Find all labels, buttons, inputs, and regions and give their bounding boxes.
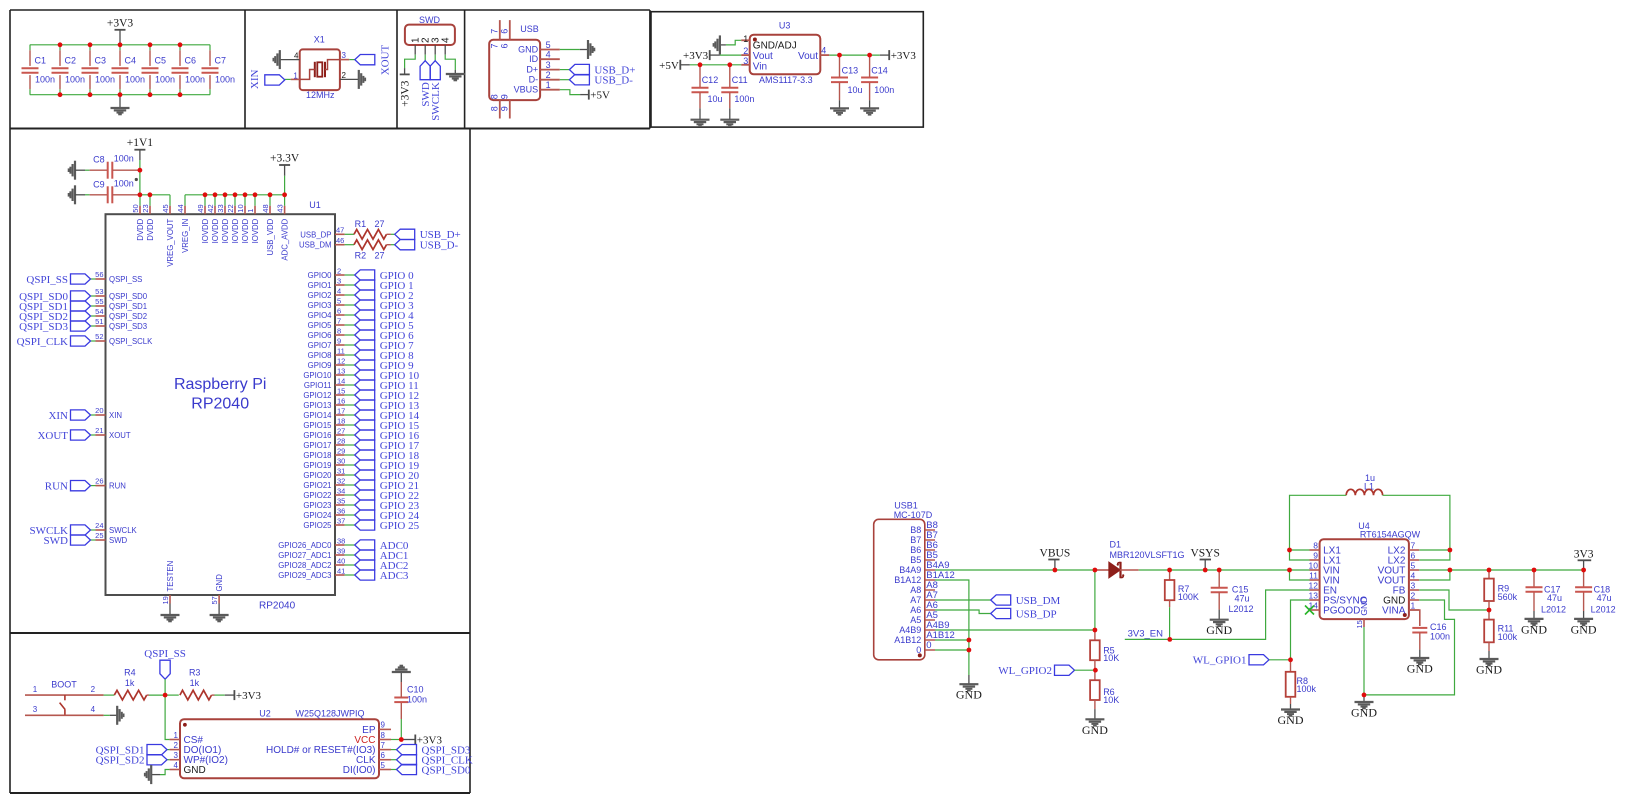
svg-text:QSPI_SS: QSPI_SS [144,648,186,660]
svg-text:+3V3: +3V3 [107,17,134,29]
svg-text:36: 36 [337,506,345,515]
svg-text:2: 2 [342,71,347,80]
svg-text:100k: 100k [1498,632,1518,642]
svg-text:U3: U3 [779,20,791,30]
svg-text:100n: 100n [1430,632,1450,642]
svg-text:8: 8 [489,94,499,99]
svg-text:QSPI_SD3: QSPI_SD3 [109,322,147,331]
svg-text:C14: C14 [871,65,888,75]
svg-text:47: 47 [336,226,344,235]
svg-text:XIN: XIN [109,411,122,420]
svg-text:22: 22 [226,204,235,212]
svg-text:11: 11 [337,346,345,355]
svg-text:C16: C16 [1430,622,1447,632]
svg-text:IOVDD: IOVDD [251,218,260,243]
svg-text:6: 6 [499,29,509,34]
svg-text:37: 37 [337,516,345,525]
svg-text:SWCLK: SWCLK [109,526,138,535]
svg-text:C1: C1 [35,56,47,66]
svg-text:5: 5 [1411,560,1416,570]
svg-text:10K: 10K [1103,653,1119,663]
svg-text:1: 1 [293,71,298,80]
svg-text:L2012: L2012 [1229,604,1254,614]
svg-text:15: 15 [1355,620,1364,628]
svg-text:XIN: XIN [249,69,261,89]
svg-text:GND: GND [1351,706,1377,720]
svg-text:IOVDD: IOVDD [221,218,230,243]
svg-text:3: 3 [546,60,551,70]
svg-text:IOVDD: IOVDD [231,218,240,243]
svg-text:GPIO25: GPIO25 [303,521,332,530]
svg-text:B7: B7 [910,535,921,545]
svg-text:B1A12: B1A12 [894,575,921,585]
svg-text:L2012: L2012 [1541,605,1566,615]
svg-text:GPIO7: GPIO7 [308,341,332,350]
svg-text:U1: U1 [309,200,321,210]
svg-text:GPIO9: GPIO9 [308,361,332,370]
svg-text:10u: 10u [708,94,723,104]
svg-text:GND: GND [215,574,224,592]
svg-text:4: 4 [91,705,96,714]
svg-text:50: 50 [131,204,140,212]
svg-text:VINA: VINA [1382,605,1406,616]
svg-text:C7: C7 [215,56,227,66]
svg-text:XOUT: XOUT [109,431,131,440]
svg-text:USB_DM: USB_DM [1016,595,1061,607]
svg-text:17: 17 [337,406,345,415]
svg-text:WL_GPIO1: WL_GPIO1 [1193,655,1247,667]
svg-text:1: 1 [743,34,748,44]
svg-text:GPIO20: GPIO20 [303,471,332,480]
svg-text:QSPI_SS: QSPI_SS [26,274,68,286]
svg-text:8: 8 [381,731,386,740]
svg-text:33: 33 [216,204,225,212]
svg-text:QSPI_SD1: QSPI_SD1 [109,302,147,311]
svg-text:A7: A7 [910,595,921,605]
svg-text:A6: A6 [910,605,921,615]
svg-text:57: 57 [210,596,219,604]
svg-text:XOUT: XOUT [379,44,391,75]
svg-text:L2012: L2012 [1591,605,1616,615]
svg-text:B8: B8 [910,525,921,535]
svg-text:C12: C12 [702,75,719,85]
svg-text:C13: C13 [842,65,859,75]
svg-text:48: 48 [261,204,270,212]
svg-text:51: 51 [95,317,103,326]
svg-text:ADC_AVDD: ADC_AVDD [281,218,290,260]
svg-text:46: 46 [336,236,344,245]
svg-text:USB1: USB1 [894,501,918,511]
svg-text:13: 13 [1309,590,1319,600]
svg-text:Vout: Vout [753,51,773,62]
svg-text:R4: R4 [124,668,136,678]
svg-text:9: 9 [381,721,386,730]
svg-text:A4B9: A4B9 [899,625,921,635]
svg-text:100n: 100n [215,74,235,84]
svg-text:2: 2 [174,741,179,750]
svg-text:1: 1 [33,685,38,694]
svg-text:+3V3: +3V3 [399,80,411,107]
svg-text:7: 7 [337,316,341,325]
svg-text:+3V3: +3V3 [683,50,709,62]
svg-text:USB_D-: USB_D- [420,240,459,252]
svg-text:21: 21 [95,426,103,435]
svg-text:GND: GND [1521,622,1547,636]
svg-text:A8: A8 [910,585,921,595]
svg-text:27: 27 [375,251,385,261]
svg-text:C6: C6 [185,56,197,66]
svg-text:GPIO22: GPIO22 [303,491,331,500]
svg-text:47u: 47u [1235,594,1250,604]
svg-text:45: 45 [161,204,170,212]
svg-text:XIN: XIN [48,410,68,422]
svg-text:B5: B5 [910,555,921,565]
svg-text:C10: C10 [407,685,424,695]
svg-text:QSPI_SD2: QSPI_SD2 [109,312,147,321]
svg-text:C2: C2 [65,56,77,66]
svg-text:GPIO15: GPIO15 [303,421,332,430]
svg-text:3: 3 [174,751,179,760]
svg-text:GPIO1: GPIO1 [308,281,332,290]
svg-text:38: 38 [337,536,345,545]
svg-text:USB_DP: USB_DP [1016,608,1057,620]
svg-text:18: 18 [337,416,345,425]
svg-text:11: 11 [1309,570,1318,580]
svg-text:100n: 100n [185,74,205,84]
svg-text:W25Q128JWPIQ: W25Q128JWPIQ [295,709,364,719]
svg-text:USB_VDD: USB_VDD [266,218,275,255]
svg-text:12: 12 [337,356,345,365]
svg-text:34: 34 [337,486,345,495]
svg-text:VBUS: VBUS [1040,548,1071,560]
svg-text:31: 31 [337,466,345,475]
svg-text:8: 8 [1313,540,1318,550]
svg-text:32: 32 [337,476,345,485]
svg-text:7: 7 [489,29,499,34]
svg-text:100n: 100n [125,74,145,84]
svg-text:TESTEN: TESTEN [166,561,175,592]
svg-text:GPIO4: GPIO4 [308,311,332,320]
svg-text:35: 35 [337,496,345,505]
svg-text:6: 6 [1411,550,1416,560]
svg-text:C8: C8 [93,154,105,164]
svg-text:100n: 100n [407,695,427,705]
svg-text:9: 9 [499,106,509,111]
svg-text:39: 39 [337,546,345,555]
svg-text:R1: R1 [355,219,367,229]
svg-text:1: 1 [246,209,255,213]
svg-text:DVDD: DVDD [146,218,155,240]
svg-text:C11: C11 [732,75,748,85]
svg-text:GND: GND [184,765,206,776]
svg-text:3: 3 [1411,580,1416,590]
svg-text:1: 1 [174,731,179,740]
svg-text:25: 25 [95,531,103,540]
svg-text:VBUS: VBUS [514,85,539,95]
svg-text:GND/ADJ: GND/ADJ [753,41,797,52]
svg-text:QSPI_SCLK: QSPI_SCLK [109,337,153,346]
svg-text:GPIO27_ADC1: GPIO27_ADC1 [278,551,331,560]
svg-text:100n: 100n [155,74,175,84]
svg-text:3: 3 [337,276,341,285]
svg-text:C9: C9 [93,180,105,190]
svg-text:+1V1: +1V1 [127,137,154,149]
svg-text:D+: D+ [526,65,538,75]
svg-text:560k: 560k [1498,592,1518,602]
svg-text:GND: GND [1206,623,1232,637]
svg-text:2: 2 [91,685,96,694]
svg-text:100n: 100n [874,85,894,95]
svg-text:GPIO13: GPIO13 [303,401,331,410]
svg-text:SWD: SWD [109,536,128,545]
svg-text:SWD: SWD [44,535,69,547]
svg-text:GPIO23: GPIO23 [303,501,331,510]
svg-text:RT6154AGQW: RT6154AGQW [1360,530,1421,540]
svg-text:10: 10 [236,204,245,212]
svg-text:15: 15 [337,386,345,395]
svg-text:49: 49 [196,204,205,212]
svg-text:GPIO5: GPIO5 [308,321,332,330]
svg-text:QSPI_SD0: QSPI_SD0 [109,292,148,301]
svg-text:4: 4 [294,52,299,61]
svg-text:8: 8 [489,106,499,111]
svg-text:USB_D-: USB_D- [594,75,633,87]
svg-text:D1: D1 [1110,540,1122,550]
svg-text:3: 3 [342,51,347,60]
svg-text:DI(IO0): DI(IO0) [343,765,376,776]
svg-text:6: 6 [337,306,341,315]
svg-text:VREG_VOUT: VREG_VOUT [166,218,175,266]
svg-text:GPIO19: GPIO19 [303,461,331,470]
svg-text:5: 5 [337,296,341,305]
svg-text:24: 24 [95,521,103,530]
svg-text:GND: GND [1476,663,1502,677]
svg-text:GND: GND [518,45,539,55]
svg-text:9: 9 [499,94,509,99]
svg-text:100K: 100K [1178,592,1199,602]
svg-text:GPIO 25: GPIO 25 [380,520,420,532]
svg-text:GND: GND [956,688,982,702]
svg-text:55: 55 [95,297,103,306]
svg-text:GPIO14: GPIO14 [303,411,332,420]
svg-text:8: 8 [337,326,341,335]
svg-text:19: 19 [161,596,170,604]
svg-text:5: 5 [546,40,551,50]
svg-text:41: 41 [337,566,345,575]
svg-text:6: 6 [381,751,386,760]
svg-text:26: 26 [95,477,103,486]
svg-text:52: 52 [95,332,103,341]
svg-text:QSPI_SS: QSPI_SS [109,275,142,284]
svg-text:3: 3 [33,705,38,714]
svg-text:GND: GND [1278,713,1304,727]
svg-text:1: 1 [546,80,551,90]
svg-text:GPIO3: GPIO3 [308,301,332,310]
svg-text:+5V: +5V [659,60,679,72]
svg-text:QSPI_CLK: QSPI_CLK [17,336,68,348]
svg-text:10: 10 [1309,560,1319,570]
svg-text:43: 43 [276,204,285,212]
svg-text:R3: R3 [189,668,201,678]
svg-text:40: 40 [337,556,345,565]
svg-text:GND: GND [1571,622,1597,636]
svg-text:1: 1 [1411,600,1416,610]
svg-text:0: 0 [926,640,931,651]
svg-text:C4: C4 [125,56,137,66]
svg-text:7: 7 [1411,540,1416,550]
svg-text:GPIO8: GPIO8 [308,351,332,360]
svg-text:100n: 100n [734,94,754,104]
svg-text:Vin: Vin [753,62,767,73]
svg-text:GPIO29_ADC3: GPIO29_ADC3 [278,571,331,580]
svg-text:GPIO18: GPIO18 [303,451,331,460]
svg-text:IOVDD: IOVDD [211,218,220,243]
svg-text:GPIO11: GPIO11 [304,381,332,390]
svg-text:100n: 100n [65,74,85,84]
svg-text:30: 30 [337,456,345,465]
svg-text:RP2040: RP2040 [191,396,249,413]
svg-text:23: 23 [141,204,150,212]
svg-text:GPIO16: GPIO16 [303,431,331,440]
svg-text:U2: U2 [259,709,271,719]
svg-text:4: 4 [174,761,179,770]
svg-text:Raspberry Pi: Raspberry Pi [174,376,266,393]
svg-text:10u: 10u [848,85,863,95]
svg-text:A5: A5 [910,615,921,625]
svg-text:9: 9 [1313,550,1318,560]
svg-text:27: 27 [375,219,385,229]
svg-text:VSYS: VSYS [1190,548,1219,560]
svg-text:C5: C5 [155,56,167,66]
svg-text:ID: ID [529,54,539,64]
svg-text:44: 44 [176,204,185,212]
svg-text:GND: GND [1082,723,1108,737]
svg-text:28: 28 [337,436,345,445]
svg-text:USB_DP: USB_DP [300,230,331,239]
svg-text:3V3_EN: 3V3_EN [1128,628,1164,639]
svg-text:QSPI_SD0: QSPI_SD0 [422,764,471,776]
svg-text:4: 4 [1411,570,1416,580]
svg-text:+3.3V: +3.3V [270,153,300,165]
svg-text:2: 2 [1411,590,1416,600]
svg-text:SWCLK: SWCLK [430,82,442,121]
svg-text:0: 0 [916,645,921,655]
svg-text:B6: B6 [910,545,921,555]
svg-text:GPIO28_ADC2: GPIO28_ADC2 [278,561,331,570]
svg-text:C3: C3 [95,56,107,66]
svg-text:WL_GPIO2: WL_GPIO2 [998,665,1052,677]
svg-text:100k: 100k [1297,684,1317,694]
svg-text:2: 2 [546,70,551,80]
svg-text:GPIO6: GPIO6 [308,331,332,340]
svg-text:5: 5 [381,761,386,770]
svg-text:PGOOD: PGOOD [1323,605,1360,616]
svg-text:GPIO0: GPIO0 [308,271,332,280]
svg-text:1k: 1k [190,678,200,688]
svg-text:4: 4 [821,46,826,56]
svg-text:4: 4 [546,50,551,60]
svg-text:RUN: RUN [109,482,126,491]
svg-text:GND: GND [1359,597,1369,616]
svg-text:+3V3: +3V3 [891,50,917,62]
svg-text:MBR120VLSFT1G: MBR120VLSFT1G [1110,550,1185,560]
svg-text:29: 29 [337,446,345,455]
svg-text:RP2040: RP2040 [259,601,296,612]
svg-text:10K: 10K [1103,695,1119,705]
svg-text:100n: 100n [95,74,115,84]
svg-text:GND: GND [1407,662,1433,676]
svg-text:X1: X1 [314,34,325,44]
svg-text:47u: 47u [1597,593,1612,603]
svg-text:54: 54 [95,307,103,316]
svg-text:GPIO12: GPIO12 [303,391,331,400]
svg-text:27: 27 [337,426,345,435]
svg-text:A1B12: A1B12 [894,635,921,645]
svg-text:QSPI_SD2: QSPI_SD2 [96,755,145,767]
svg-text:100n: 100n [114,178,134,188]
svg-text:+5V: +5V [590,90,610,102]
svg-text:12: 12 [1309,580,1319,590]
svg-text:20: 20 [95,406,103,415]
svg-text:IOVDD: IOVDD [201,218,210,243]
svg-text:XOUT: XOUT [37,430,68,442]
svg-text:B4A9: B4A9 [899,565,921,575]
svg-text:GPIO17: GPIO17 [303,441,331,450]
svg-text:4: 4 [441,37,452,43]
svg-text:VREG_IN: VREG_IN [181,219,190,253]
svg-text:GPIO2: GPIO2 [308,291,332,300]
svg-text:RUN: RUN [45,480,68,492]
svg-text:53: 53 [95,287,103,296]
svg-text:2: 2 [743,46,748,56]
svg-text:56: 56 [95,270,103,279]
svg-text:AMS1117-3.3: AMS1117-3.3 [759,75,813,85]
svg-text:IOVDD: IOVDD [241,218,250,243]
svg-text:100n: 100n [35,74,55,84]
svg-text:16: 16 [337,396,345,405]
svg-text:14: 14 [337,376,345,385]
svg-text:Vout: Vout [798,51,818,62]
svg-text:D-: D- [529,75,539,85]
svg-text:USB_DM: USB_DM [299,241,332,250]
svg-text:R2: R2 [355,251,367,261]
svg-text:GPIO21: GPIO21 [303,481,331,490]
svg-text:3V3: 3V3 [1574,549,1594,561]
svg-text:DVDD: DVDD [136,218,145,240]
svg-text:GPIO10: GPIO10 [303,371,332,380]
svg-text:1k: 1k [125,678,135,688]
svg-text:6: 6 [499,43,509,48]
svg-text:47u: 47u [1547,593,1562,603]
svg-text:QSPI_SD3: QSPI_SD3 [19,321,68,333]
svg-text:12MHz: 12MHz [306,90,335,100]
svg-text:7: 7 [381,741,386,750]
svg-text:9: 9 [337,336,341,345]
svg-text:2: 2 [337,266,341,275]
svg-text:ADC3: ADC3 [380,570,409,582]
svg-text:BOOT: BOOT [51,679,77,689]
svg-text:100n: 100n [114,154,134,164]
svg-text:42: 42 [206,204,215,212]
svg-text:GPIO26_ADC0: GPIO26_ADC0 [278,541,332,550]
svg-text:USB: USB [520,24,539,34]
svg-text:GPIO24: GPIO24 [303,511,332,520]
svg-text:+3V3: +3V3 [236,690,262,702]
svg-text:3: 3 [743,56,748,66]
svg-text:4: 4 [337,286,341,295]
svg-text:13: 13 [337,366,345,375]
svg-text:7: 7 [489,43,499,48]
